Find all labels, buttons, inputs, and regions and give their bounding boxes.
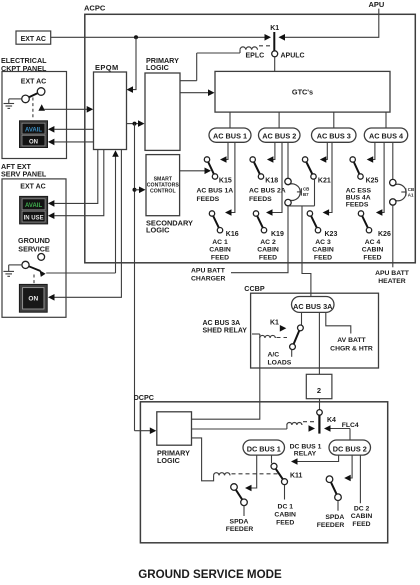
svg-text:2: 2 bbox=[317, 386, 321, 395]
svg-text:CABIN: CABIN bbox=[351, 513, 373, 520]
svg-text:LOGIC: LOGIC bbox=[146, 226, 170, 235]
K11 label bbox=[290, 472, 303, 479]
svg-text:FEED: FEED bbox=[276, 519, 294, 526]
svg-text:CCBP: CCBP bbox=[244, 284, 265, 293]
svg-text:FEED: FEED bbox=[259, 254, 277, 261]
K19 label bbox=[271, 231, 284, 238]
relay K1 shed arrow bbox=[280, 325, 287, 332]
svg-text:K16: K16 bbox=[226, 231, 239, 238]
svg-text:A/C: A/C bbox=[268, 352, 280, 359]
svg-text:FEED: FEED bbox=[352, 521, 370, 528]
svg-text:HEATER: HEATER bbox=[378, 278, 406, 285]
DCPC box bbox=[140, 402, 387, 543]
GROUND SERVICE MODE title bbox=[138, 568, 282, 581]
svg-text:FEEDS: FEEDS bbox=[346, 202, 369, 209]
svg-text:CB: CB bbox=[303, 187, 309, 192]
contactor K21 bbox=[302, 157, 316, 179]
bus DC BUS 2 bbox=[329, 440, 371, 455]
GROUND SERVICE label bbox=[18, 236, 50, 253]
wire EPLC dashes bbox=[259, 45, 271, 47]
svg-text:LOGIC: LOGIC bbox=[157, 456, 180, 465]
svg-text:AC 2: AC 2 bbox=[260, 239, 276, 246]
K21 label bbox=[318, 178, 331, 185]
svg-text:AC BUS 3A: AC BUS 3A bbox=[203, 320, 241, 327]
svg-text:FEED: FEED bbox=[314, 254, 332, 261]
wire CCBP coil to DCPC logic bbox=[192, 338, 260, 419]
SPDA FEEDER right label bbox=[317, 514, 345, 529]
ELECTRICAL CKPT PANEL box bbox=[2, 72, 67, 159]
svg-text:AC BUS 2A: AC BUS 2A bbox=[249, 188, 286, 195]
contactor K23 bbox=[307, 211, 321, 233]
EPQM box bbox=[94, 63, 127, 150]
svg-text:K21: K21 bbox=[318, 178, 331, 185]
K15 label bbox=[219, 178, 232, 185]
AV BATT CHGR label bbox=[330, 337, 373, 352]
svg-text:ON: ON bbox=[29, 139, 38, 145]
svg-text:K18: K18 bbox=[265, 178, 278, 185]
bus AC BUS 4 bbox=[364, 128, 407, 142]
svg-text:GROUND SERVICE MODE: GROUND SERVICE MODE bbox=[138, 568, 282, 581]
EXT AC switch label bbox=[21, 79, 46, 86]
svg-text:AC BUS 2: AC BUS 2 bbox=[262, 132, 296, 141]
wire CB B7 to APU BATT CHARGER bbox=[231, 206, 288, 273]
wire gs dashed bbox=[33, 275, 35, 284]
switch SPDA feeder right bbox=[326, 476, 341, 511]
wire DC BUS 2 to DC 2 cabin feed bbox=[359, 455, 361, 503]
SPDA FEEDER left label bbox=[226, 518, 254, 533]
coil K4 bbox=[287, 422, 316, 429]
contactor K11 bbox=[271, 463, 288, 484]
svg-text:SHED RELAY: SHED RELAY bbox=[203, 328, 248, 335]
wire EPQM to aft IN USE bbox=[48, 150, 104, 220]
svg-text:A1: A1 bbox=[408, 192, 414, 197]
ACPC panel box bbox=[85, 14, 416, 262]
PRIMARY LOGIC label bbox=[146, 56, 179, 72]
wire EPQM to gs ON bbox=[48, 150, 121, 301]
wire AC BUS 3A to AV BATT bbox=[326, 312, 351, 333]
K18 feeds label bbox=[249, 188, 286, 204]
PRIMARY LOGIC box (ACPC) bbox=[145, 73, 180, 150]
svg-text:DC 2: DC 2 bbox=[354, 506, 370, 513]
wire DCPC logic to K4 coil bbox=[192, 428, 287, 430]
wire K11 to DC 1 cabin feed bbox=[284, 485, 286, 500]
circuit breaker CB A1 bbox=[390, 179, 415, 205]
wire FLC4 to DC BUS 2 bbox=[342, 422, 359, 440]
svg-text:K4: K4 bbox=[327, 417, 336, 424]
node to smart contactors bbox=[133, 188, 137, 192]
wire CB B7 junction bbox=[288, 179, 315, 206]
PRIMARY LOGIC DCPC label bbox=[157, 448, 190, 465]
DC 1 CABIN FEED label bbox=[274, 504, 296, 527]
svg-text:AC BUS 1A: AC BUS 1A bbox=[197, 188, 234, 195]
circuit breaker CB B7 bbox=[285, 178, 310, 206]
wire GTC to AC BUS 4 bbox=[385, 112, 387, 128]
svg-text:K11: K11 bbox=[290, 472, 303, 479]
wire K21 chain to AC BUS 3A bbox=[302, 206, 311, 297]
CCBP label bbox=[244, 284, 265, 293]
APU label bbox=[369, 0, 385, 9]
svg-text:FEEDS: FEEDS bbox=[249, 196, 272, 203]
svg-text:K25: K25 bbox=[366, 178, 379, 185]
svg-text:AC 1: AC 1 bbox=[212, 239, 228, 246]
svg-text:K1: K1 bbox=[270, 25, 279, 32]
svg-text:APU: APU bbox=[369, 0, 385, 9]
svg-text:CABIN: CABIN bbox=[312, 247, 334, 254]
AFT EXT SERV PANEL label bbox=[1, 162, 47, 179]
svg-text:AC ESS: AC ESS bbox=[346, 187, 372, 194]
APU BATT CHARGER label bbox=[191, 267, 226, 282]
AFT EXT SERV PANEL box bbox=[2, 179, 66, 317]
svg-text:K15: K15 bbox=[219, 178, 232, 185]
svg-text:AC BUS 4: AC BUS 4 bbox=[369, 132, 404, 141]
DC BUS 1 RELAY label bbox=[290, 444, 322, 458]
APU BATT HEATER label bbox=[375, 270, 410, 285]
ground aft panel bbox=[3, 265, 22, 276]
wire DC BUS 1 to K11 bbox=[271, 455, 273, 463]
EXT AC aft label bbox=[20, 183, 45, 190]
wire DC BUS 2 to SPDA feeder right bbox=[344, 455, 352, 481]
svg-text:K26: K26 bbox=[378, 231, 391, 238]
svg-text:ON: ON bbox=[28, 296, 38, 303]
svg-text:FEED: FEED bbox=[211, 254, 229, 261]
svg-text:AC BUS 3A: AC BUS 3A bbox=[293, 302, 333, 311]
svg-text:FEED: FEED bbox=[363, 254, 381, 261]
relay contact K1 bbox=[270, 25, 279, 51]
contactor K25 bbox=[350, 157, 363, 179]
ACPC label bbox=[84, 4, 106, 13]
wire AC BUS 4 to CB A1 bbox=[392, 142, 394, 179]
svg-text:CONTROL: CONTROL bbox=[150, 189, 176, 195]
svg-text:DC 1: DC 1 bbox=[278, 504, 294, 511]
K23 label bbox=[325, 231, 338, 238]
indicator ground service ON bbox=[19, 284, 47, 312]
contact ground service bbox=[38, 254, 45, 261]
node EPQM output bbox=[133, 122, 137, 126]
svg-text:ACPC: ACPC bbox=[84, 4, 106, 13]
svg-text:SPDA: SPDA bbox=[230, 518, 249, 525]
PRIMARY LOGIC box (DCPC) bbox=[157, 412, 192, 445]
svg-text:CONTATORS: CONTATORS bbox=[147, 183, 180, 189]
svg-text:DC BUS 2: DC BUS 2 bbox=[333, 445, 367, 454]
relay contact K4 bbox=[319, 415, 336, 433]
wire EPQM to aft AVAIL bbox=[48, 150, 98, 207]
contact APULC bbox=[272, 51, 305, 60]
bus AC BUS 2 bbox=[259, 128, 301, 142]
coil EPLC bbox=[197, 47, 264, 81]
svg-text:EPLC: EPLC bbox=[246, 53, 265, 60]
svg-text:AVAIL: AVAIL bbox=[25, 203, 42, 209]
wire branch to EPQM bbox=[127, 37, 137, 93]
K18 label bbox=[265, 178, 278, 185]
AC BUS 3A SHED RELAY label bbox=[203, 320, 248, 335]
svg-text:FLC4: FLC4 bbox=[342, 422, 359, 429]
wire EPQM to PRIMARY LOGIC bbox=[127, 120, 145, 127]
ELECTRICAL CKPT PANEL label bbox=[1, 56, 47, 73]
relay K1 shed label bbox=[270, 320, 279, 327]
svg-text:EXT AC: EXT AC bbox=[21, 36, 46, 43]
wire ckpt switch to EPQM bbox=[38, 104, 93, 112]
contactor K15 bbox=[204, 157, 217, 179]
wire EXT AC to K1 bbox=[51, 34, 271, 41]
wire to smart contactors bbox=[135, 187, 146, 194]
wire APU to K1 bbox=[279, 9, 379, 41]
coil K1 shed bbox=[252, 334, 287, 338]
contactor K1 shed bbox=[290, 325, 304, 350]
wire PL to GTC bbox=[180, 89, 215, 96]
svg-text:CABIN: CABIN bbox=[274, 512, 296, 519]
svg-text:EXT AC: EXT AC bbox=[21, 79, 46, 86]
DCPC label bbox=[134, 393, 154, 402]
svg-text:AV BATT: AV BATT bbox=[337, 337, 366, 344]
wire gs switch to EPQM bbox=[46, 150, 119, 273]
svg-text:GTC's: GTC's bbox=[292, 87, 313, 96]
wire APULC to GTC bbox=[274, 57, 276, 72]
CCBP box bbox=[251, 293, 379, 368]
svg-text:AVAIL: AVAIL bbox=[25, 127, 42, 133]
wire AC BUS 3A to K1 shed contact bbox=[301, 312, 303, 325]
svg-text:CHARGER: CHARGER bbox=[191, 275, 225, 282]
wire AC BUS 1 to K15 bbox=[220, 142, 228, 163]
wire switch sense dashed bbox=[32, 98, 34, 120]
svg-text:SPDA: SPDA bbox=[325, 514, 344, 521]
K15 feeds label bbox=[197, 188, 234, 204]
wire AC BUS 4 to K25 bbox=[367, 142, 375, 163]
wire AC BUS 4 to K26 bbox=[376, 142, 384, 216]
bus AC BUS 1 bbox=[209, 128, 251, 142]
wire AC BUS 3 to K23 bbox=[323, 142, 332, 216]
wire DC BUS 2 to K11 relay arrow bbox=[291, 455, 339, 465]
svg-text:CB: CB bbox=[408, 187, 414, 192]
svg-text:CABIN: CABIN bbox=[362, 247, 384, 254]
switch EXT AC ckpt bbox=[22, 88, 45, 103]
A/C LOADS label bbox=[268, 352, 292, 367]
switch SPDA feeder left bbox=[231, 484, 248, 516]
svg-text:IN USE: IN USE bbox=[24, 216, 44, 222]
contactor K26 bbox=[358, 211, 371, 233]
bus AC BUS 3A bbox=[292, 297, 335, 313]
wire main vertical into DCPC logic bbox=[135, 427, 157, 434]
contactor K19 bbox=[253, 211, 266, 233]
svg-text:LOADS: LOADS bbox=[268, 360, 292, 367]
svg-text:AC BUS 3: AC BUS 3 bbox=[317, 132, 351, 141]
K16 cabin feed label bbox=[209, 239, 231, 262]
wire EPQM to ckpt ON bbox=[48, 139, 94, 146]
wire GTC to AC BUS 3 bbox=[333, 112, 335, 128]
svg-text:CABIN: CABIN bbox=[209, 247, 231, 254]
EXT AC source box bbox=[16, 31, 51, 44]
SECONDARY LOGIC label bbox=[146, 218, 193, 234]
svg-text:APULC: APULC bbox=[281, 53, 305, 60]
K26 label bbox=[378, 231, 391, 238]
svg-text:K19: K19 bbox=[271, 231, 284, 238]
wire GTC to AC BUS 2 bbox=[278, 112, 280, 128]
coil K11 bbox=[192, 438, 279, 481]
svg-text:RELAY: RELAY bbox=[294, 450, 317, 457]
wire DC BUS 1 to SPDA feeder bbox=[245, 455, 257, 491]
SMART CONTATORS CONTROL box bbox=[146, 155, 180, 216]
K26 cabin feed label bbox=[362, 239, 384, 262]
wire A/C loads stub bbox=[291, 350, 293, 357]
svg-text:K1: K1 bbox=[270, 320, 279, 327]
contactor K16 bbox=[209, 211, 222, 233]
wire main vertical to DCPC bbox=[134, 124, 136, 431]
wire AC BUS 1 to K16 bbox=[225, 142, 235, 216]
svg-text:SERVICE: SERVICE bbox=[18, 245, 50, 254]
svg-text:CABIN: CABIN bbox=[257, 247, 279, 254]
svg-text:AC 4: AC 4 bbox=[365, 239, 381, 246]
svg-text:APU BATT: APU BATT bbox=[191, 267, 226, 274]
ground ckpt panel bbox=[4, 99, 22, 109]
wire CB A1 to APU BATT HEATER bbox=[392, 205, 394, 267]
K4 arrows bbox=[309, 425, 351, 432]
contactor K18 bbox=[250, 157, 264, 179]
svg-text:AC 3: AC 3 bbox=[315, 239, 331, 246]
svg-text:CHGR & HTR: CHGR & HTR bbox=[330, 346, 373, 353]
contact K4 top bbox=[317, 410, 323, 416]
K25 label bbox=[366, 178, 379, 185]
wire smart control to K15 bbox=[180, 168, 211, 175]
wire AC BUS 2 to K18 bbox=[267, 142, 275, 163]
K25 feeds label bbox=[346, 187, 372, 208]
wire AC BUS 2 to K19 bbox=[266, 142, 282, 216]
svg-text:EXT AC: EXT AC bbox=[20, 183, 45, 190]
box 2 bbox=[306, 374, 332, 398]
wire EPQM to ckpt AVAIL bbox=[48, 126, 94, 133]
K23 cabin feed label bbox=[312, 239, 334, 262]
svg-text:B7: B7 bbox=[303, 192, 309, 197]
svg-text:K23: K23 bbox=[325, 231, 338, 238]
bus AC BUS 3 bbox=[312, 128, 357, 142]
wire PL to EPLC coil bbox=[180, 80, 197, 82]
svg-text:LOGIC: LOGIC bbox=[146, 63, 169, 72]
svg-text:FEEDER: FEEDER bbox=[317, 522, 345, 529]
wire AC BUS 3 to K21 bbox=[320, 142, 328, 163]
K19 cabin feed label bbox=[257, 239, 279, 262]
svg-text:APU BATT: APU BATT bbox=[375, 270, 410, 277]
svg-text:SMART: SMART bbox=[154, 177, 173, 183]
GTC's box bbox=[215, 71, 390, 112]
K16 label bbox=[226, 231, 239, 238]
wire AC BUS 2 to CB B7 bbox=[287, 142, 289, 178]
wire GTC to AC BUS 1 bbox=[229, 112, 231, 128]
indicator ckpt AVAIL ON bbox=[20, 121, 48, 148]
DC 2 CABIN FEED label bbox=[351, 506, 373, 528]
switch ground service bbox=[22, 261, 46, 277]
svg-text:EPQM: EPQM bbox=[95, 63, 119, 72]
wire box2 to K4 bbox=[319, 399, 321, 410]
svg-text:DCPC: DCPC bbox=[134, 393, 154, 402]
wire AC BUS 3A to box 2 bbox=[318, 312, 320, 374]
svg-text:AC BUS 1: AC BUS 1 bbox=[213, 132, 247, 141]
svg-text:FEEDS: FEEDS bbox=[197, 196, 220, 203]
node EXT AC branch bbox=[134, 35, 138, 39]
bus DC BUS 1 bbox=[243, 440, 285, 455]
svg-text:SERV PANEL: SERV PANEL bbox=[1, 170, 47, 179]
svg-text:BUS 4A: BUS 4A bbox=[346, 195, 371, 202]
svg-text:FEEDER: FEEDER bbox=[226, 526, 254, 533]
svg-text:DC BUS 1: DC BUS 1 bbox=[247, 445, 281, 454]
indicator aft AVAIL IN USE bbox=[20, 196, 48, 224]
